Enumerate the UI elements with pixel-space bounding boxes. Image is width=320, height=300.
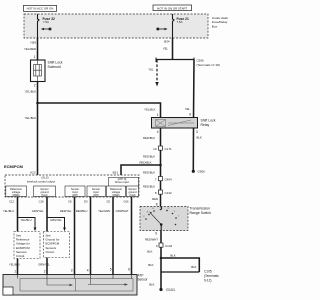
svg-text:Box: Box	[212, 24, 218, 28]
ECM drive input box B21	[109, 178, 139, 188]
svg-text:C171: C171	[165, 147, 173, 151]
node junction solenoid/relay branch	[36, 102, 39, 105]
svg-text:YEL/GRN: YEL/GRN	[98, 209, 110, 213]
svg-text:N59: N59	[30, 41, 36, 45]
ECM sensor ground box 2	[127, 186, 139, 197]
svg-text:ground: ground	[40, 190, 49, 194]
connector C105 (terminals 9-12)	[161, 270, 219, 283]
svg-text:2: 2	[44, 270, 46, 274]
label HOT IN ON OR START	[153, 5, 192, 11]
under-dash fuse/relay box	[24, 14, 228, 38]
svg-text:HOT IN ON OR START: HOT IN ON OR START	[157, 6, 187, 10]
svg-text:YEL: YEL	[163, 47, 169, 51]
ECM sensor input box 1	[65, 186, 85, 197]
svg-text:Relay: Relay	[201, 123, 210, 127]
svg-text:G101: G101	[166, 288, 175, 292]
svg-text:D3: D3	[84, 200, 88, 204]
arrow wire2 to see-ground note	[47, 218, 65, 229]
see reference voltage note box	[14, 232, 40, 259]
svg-text:BLK: BLK	[147, 250, 152, 254]
svg-text:voltage: voltage	[112, 190, 121, 194]
ATP sensor block	[3, 273, 149, 295]
svg-text:B34: B34	[164, 40, 170, 44]
svg-text:GRN/YEL: GRN/YEL	[50, 218, 62, 222]
fuse F32	[38, 14, 55, 38]
svg-text:6: 6	[128, 268, 130, 272]
wire solenoid to ECM pin A22	[25, 82, 38, 176]
ECM sensor input box 2	[87, 186, 106, 197]
svg-text:BLK: BLK	[148, 263, 153, 267]
shift lock solenoid	[31, 60, 63, 82]
svg-text:Drive input: Drive input	[115, 180, 129, 184]
wire relay pin 3 to ground G506	[192, 128, 205, 173]
wire range switch to ground	[145, 231, 161, 273]
svg-text:RED/WHT: RED/WHT	[145, 237, 158, 241]
svg-text:(Terminals 17-18): (Terminals 17-18)	[197, 63, 220, 67]
svg-text:3: 3	[196, 130, 198, 134]
ECM reference voltage box 1	[6, 186, 27, 197]
connector C132 pin 9	[147, 243, 172, 254]
svg-text:6: 6	[189, 113, 191, 117]
svg-text:RED/YEL: RED/YEL	[60, 209, 72, 213]
svg-text:10: 10	[153, 147, 157, 151]
svg-text:9-12): 9-12)	[204, 279, 211, 283]
svg-text:Sensor: Sensor	[138, 278, 149, 282]
wire C506 terminal 18 to relay pin 6	[185, 60, 194, 118]
svg-text:Shift Lock: Shift Lock	[201, 119, 216, 123]
fuse F21	[157, 14, 189, 38]
svg-text:ground: ground	[128, 190, 137, 194]
svg-text:YEL/RED: YEL/RED	[24, 47, 36, 51]
svg-text:YEL: YEL	[185, 107, 191, 111]
svg-text:Circuit.: Circuit.	[16, 254, 25, 258]
wire C506 terminal 17 off-page arrow	[148, 60, 158, 87]
wire fuse32 to solenoid	[24, 38, 37, 60]
transmission range switch	[140, 207, 211, 231]
svg-text:C404: C404	[165, 178, 173, 182]
node junction relay/drive-input branch	[159, 164, 162, 167]
svg-text:RED/BLU: RED/BLU	[76, 209, 88, 213]
wire ECM pin C18 to switch pin 2	[32, 197, 63, 275]
svg-text:(SG2): (SG2)	[129, 195, 135, 197]
svg-text:(VREF): (VREF)	[12, 195, 20, 197]
svg-text:ECM/PCM: ECM/PCM	[4, 164, 24, 169]
svg-text:G506: G506	[198, 169, 206, 173]
svg-text:RED/BLK: RED/BLK	[143, 171, 155, 175]
svg-text:C132: C132	[165, 244, 173, 248]
wire branch to ECM pin B21	[113, 161, 161, 177]
svg-text:C105: C105	[204, 270, 212, 274]
svg-text:(Terminals: (Terminals	[204, 274, 219, 278]
svg-text:2: 2	[34, 84, 36, 88]
svg-text:(SG1): (SG1)	[41, 195, 47, 197]
svg-text:Circuit.: Circuit.	[46, 250, 55, 254]
svg-text:Range Switch: Range Switch	[190, 211, 212, 215]
svg-text:YEL/BLU: YEL/BLU	[3, 209, 14, 213]
svg-text:YEL: YEL	[148, 68, 154, 72]
connector C404 pin 7	[143, 177, 172, 189]
svg-text:Solenoid: Solenoid	[48, 65, 61, 69]
ECM reference voltage box 2	[107, 186, 126, 197]
svg-text:input: input	[72, 190, 78, 194]
see ground note box	[44, 232, 70, 258]
svg-text:BLK: BLK	[197, 136, 202, 140]
svg-text:C12: C12	[9, 200, 14, 204]
svg-text:YEL/BLK: YEL/BLK	[25, 90, 36, 94]
svg-text:1: 1	[157, 113, 159, 117]
svg-text:HOT IN ACC OR ON: HOT IN ACC OR ON	[27, 6, 54, 10]
svg-text:YEL/BLU: YEL/BLU	[9, 263, 20, 267]
svg-text:C18: C18	[39, 200, 44, 204]
wire ECM pin D2 to switch pin 5	[98, 197, 113, 275]
wire BLK branch to C105	[161, 254, 199, 273]
svg-text:GRN/YEL: GRN/YEL	[32, 209, 44, 213]
svg-text:RED/BLK: RED/BLK	[140, 161, 152, 165]
wire ECM pin C12 to switch pin 1	[3, 197, 32, 275]
wire branch to relay pin 1	[38, 103, 161, 118]
svg-text:voltage: voltage	[12, 190, 21, 194]
svg-text:YEL/BLK: YEL/BLK	[144, 108, 155, 112]
svg-text:D2: D2	[107, 200, 111, 204]
svg-text:C132: C132	[165, 191, 173, 195]
label HOT IN ACC OR ON	[24, 5, 57, 11]
svg-text:5: 5	[110, 268, 112, 272]
svg-text:RED/BLK: RED/BLK	[143, 185, 155, 189]
svg-text:4: 4	[87, 269, 89, 273]
wire fuse21 to C506	[163, 38, 173, 60]
wire ECM pin D3 to switch pin 4	[76, 197, 91, 275]
svg-text:4: 4	[157, 130, 159, 134]
svg-text:7.5A: 7.5A	[177, 20, 183, 24]
svg-text:(ATP): (ATP)	[93, 194, 99, 197]
ECM sensor ground box 1	[34, 186, 56, 197]
svg-text:RED: RED	[152, 197, 158, 201]
svg-text:YEL/BLU: YEL/BLU	[21, 218, 32, 222]
ECM/PCM	[4, 164, 139, 197]
svg-text:1: 1	[14, 270, 16, 274]
connector C132 pin 8	[152, 190, 172, 207]
svg-text:YEL/BLK: YEL/BLK	[25, 116, 36, 120]
svg-text:C8: C8	[68, 200, 72, 204]
wire relay pin 4 down	[143, 128, 160, 207]
shift lock relay	[152, 113, 216, 135]
svg-text:D16: D16	[124, 200, 129, 204]
wire ECM pin D16 to switch pin 6	[116, 197, 132, 275]
svg-text:RED/BLK: RED/BLK	[143, 155, 155, 159]
svg-text:BLK: BLK	[191, 265, 196, 269]
svg-text:GRN/YEL: GRN/YEL	[38, 263, 50, 267]
svg-text:A22: A22	[30, 170, 36, 174]
node junction BLK branch	[160, 257, 163, 260]
svg-text:9: 9	[155, 232, 157, 236]
svg-text:Interlock control output: Interlock control output	[27, 179, 56, 183]
connector C171 pin 10	[143, 146, 172, 159]
svg-text:BLK: BLK	[149, 283, 154, 287]
svg-text:Shift Lock: Shift Lock	[48, 61, 63, 65]
svg-text:(ATP): (ATP)	[72, 194, 78, 197]
svg-text:RED/BLK: RED/BLK	[143, 136, 155, 140]
arrow wire1 to see-reference-voltage note	[18, 218, 36, 229]
wire ECM pin C8 to switch pin 3	[60, 197, 75, 275]
svg-text:8: 8	[156, 203, 158, 207]
svg-text:GRN/WHT: GRN/WHT	[116, 209, 129, 213]
connector C506 (terminals 17-18)	[156, 58, 220, 67]
svg-text:(VREF): (VREF)	[112, 195, 120, 197]
svg-text:Transmission: Transmission	[190, 207, 211, 211]
svg-text:1: 1	[34, 55, 36, 59]
svg-text:B21: B21	[113, 170, 119, 174]
svg-text:input: input	[93, 190, 99, 194]
svg-text:3: 3	[71, 269, 73, 273]
ground G101	[149, 272, 175, 292]
svg-text:7.5A: 7.5A	[43, 20, 49, 24]
svg-text:BLK: BLK	[170, 254, 175, 258]
